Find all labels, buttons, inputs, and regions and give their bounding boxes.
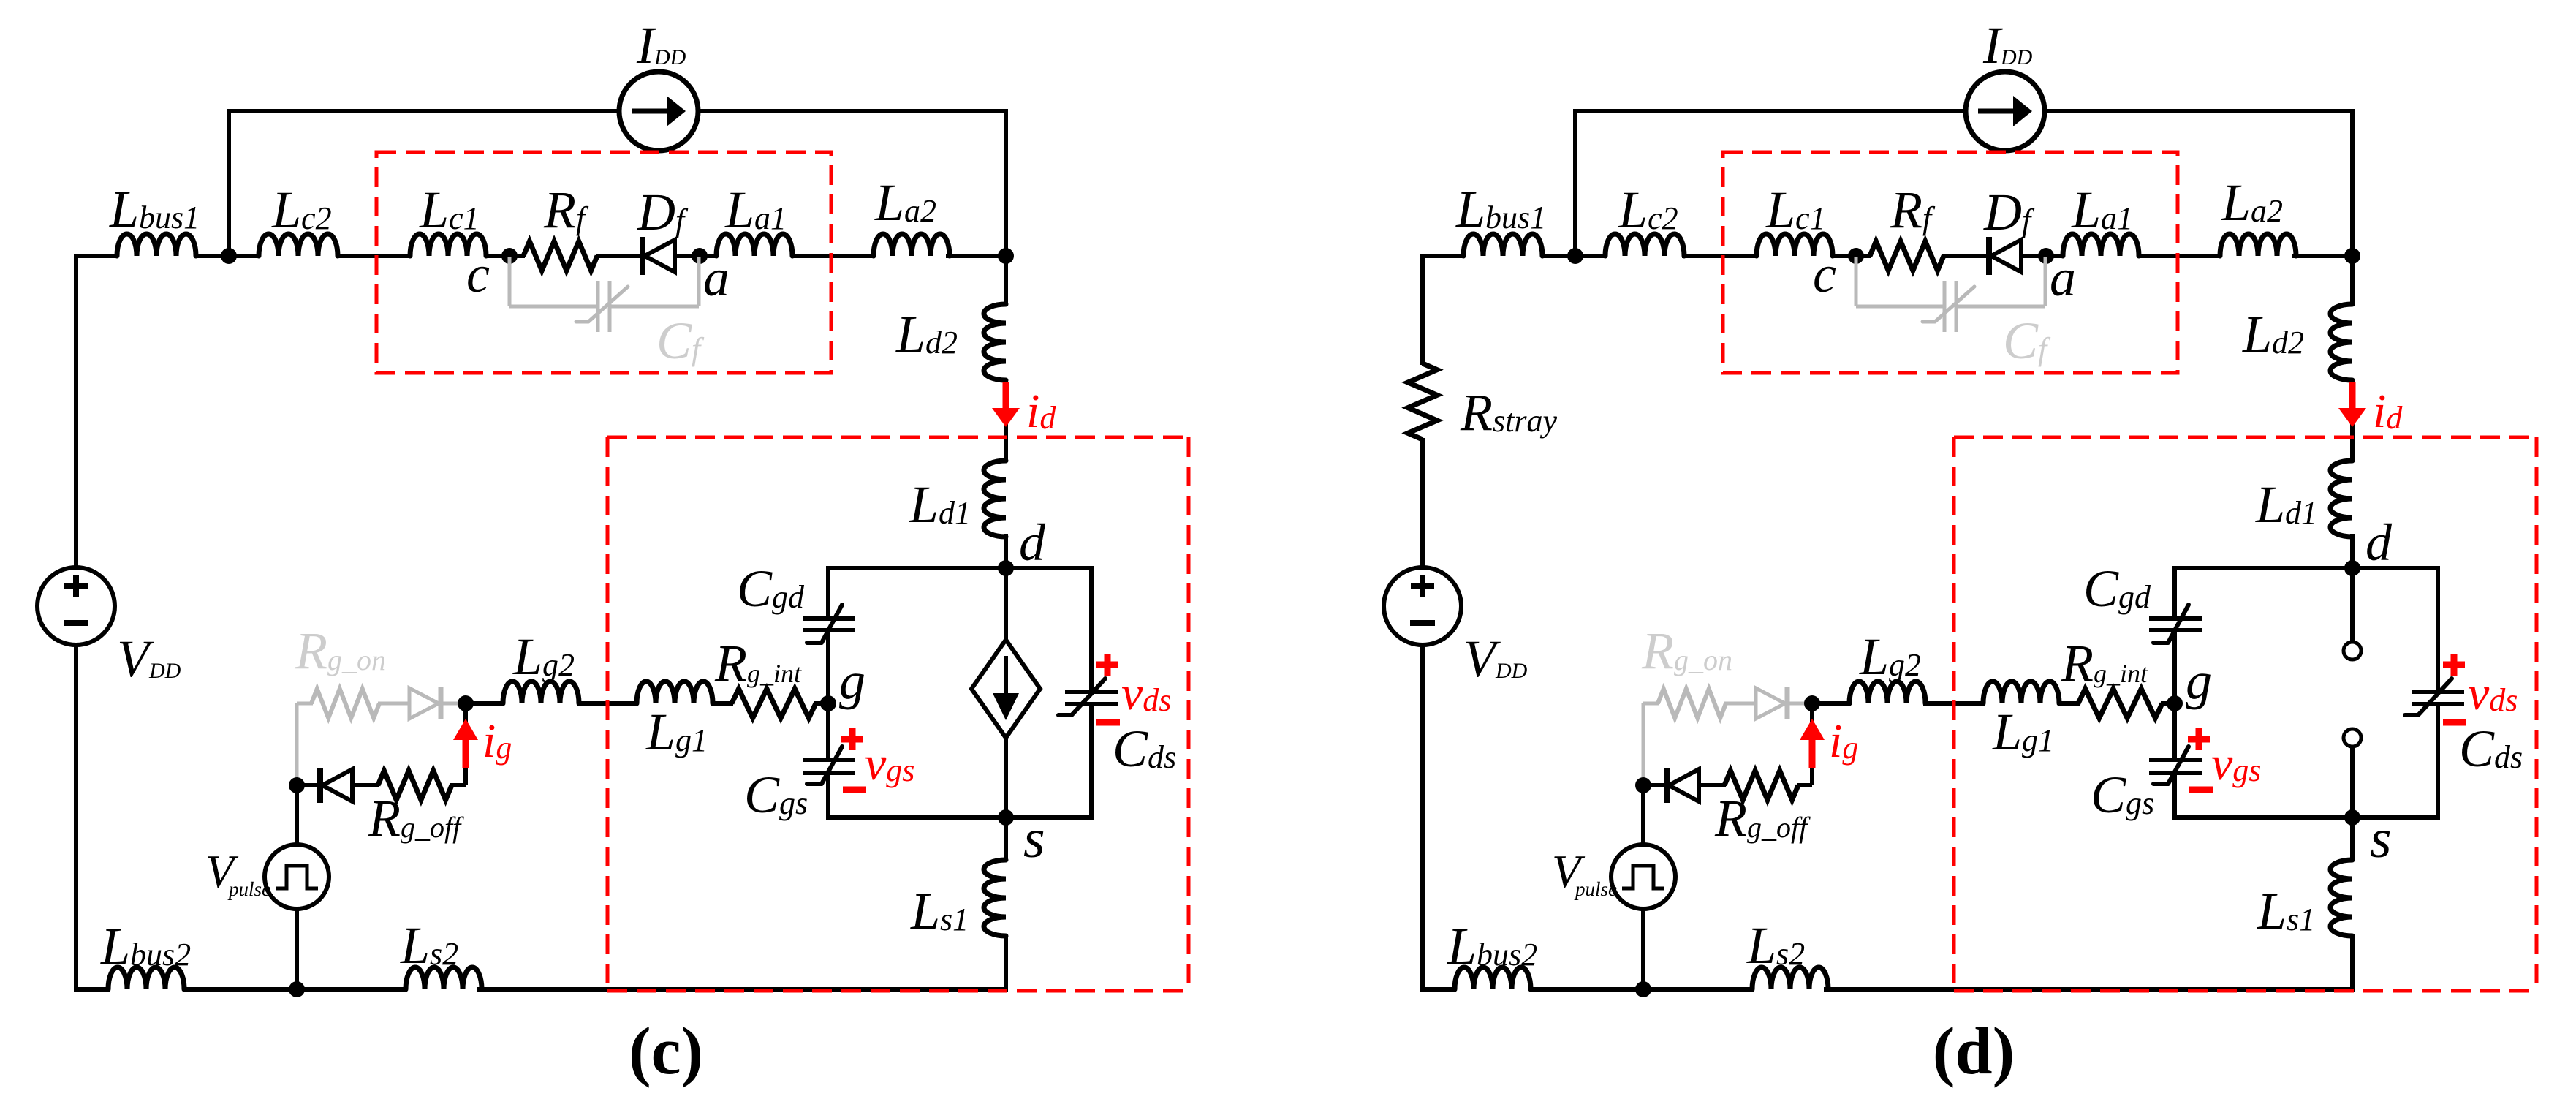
- node c (panel c): [501, 248, 518, 264]
- inductor Lc2 (panel c): [259, 234, 338, 256]
- MOSFET box left edge upper (to Cgd) (panel d): [2172, 568, 2177, 619]
- capacitor Cgd (panel c): [803, 616, 855, 621]
- wire: left vertical to Rstray (panel d): [1420, 254, 1425, 365]
- wire: top rail right segment (panel c): [698, 109, 1008, 113]
- wire (gray): Cf left horizontal (panel c): [509, 305, 598, 309]
- wire: node to Ld2 (panel c): [1004, 256, 1008, 306]
- wire: Vpulse to bottom rail (panel d): [1641, 908, 1645, 989]
- node: top of drain branch (panel c): [998, 248, 1014, 264]
- dashed box: freewheeling diode module (panel c): [376, 152, 831, 373]
- MOSFET box right edge lower (panel d): [2436, 704, 2440, 817]
- inductor Lc2 (panel d): [1605, 234, 1684, 256]
- wire: left vertical upper (panel c): [74, 254, 78, 569]
- svg-text:pulse: pulse: [1574, 878, 1617, 900]
- wire: gate node to Lg2 (panel c): [464, 701, 504, 706]
- current source IDD (panel c): [619, 72, 698, 151]
- MOSFET box left edge lower (panel d): [2172, 773, 2177, 817]
- wire: bottom rail Ls2 to source branch (panel d): [1824, 987, 2355, 992]
- wire: rail Df to La1 (panel c): [675, 254, 718, 258]
- inductor Lc1 (panel c): [410, 234, 486, 256]
- wire: Lg2 to Lg1 (panel c): [577, 701, 638, 706]
- wire: Rstray to VDD (panel d): [1420, 438, 1425, 569]
- wire: Ls1 to bottom rail (panel d): [2350, 934, 2355, 992]
- wire: right vertical from top rail to node (panel d): [2350, 109, 2355, 256]
- wire: rail Lc2 to Lc1 (panel d): [1682, 254, 1758, 258]
- wire: rail Rf to Df (panel c): [596, 254, 643, 258]
- inductor Ld2 (panel d): [2330, 304, 2352, 380]
- capacitor Cds (panel d): [2412, 690, 2464, 694]
- capacitor Cgd (panel d): [2149, 616, 2202, 621]
- node s (panel c): [998, 809, 1014, 826]
- wire: node to Vpulse (panel c): [295, 785, 299, 845]
- wire: right vertical from top rail to node (panel c): [1004, 109, 1008, 256]
- wire (gray): diode to gate node (panel c): [442, 702, 466, 706]
- node: top of drain branch (panel d): [2344, 248, 2360, 264]
- capacitor Cgs (panel d): [2149, 758, 2202, 762]
- diode (off-path) (panel d): [1664, 768, 1670, 803]
- wire: top rail right segment (panel d): [2045, 109, 2355, 113]
- node: junction of riser and rail (panel d): [1567, 248, 1583, 264]
- wire: gate node down (under ig arrow) (panel c): [463, 703, 468, 785]
- wire: s to Ls1 (panel c): [1004, 817, 1008, 861]
- dashed box: device under test (panel d): [1954, 436, 2537, 439]
- switch contact upper circle (panel d): [2344, 642, 2361, 660]
- capacitor Cds (panel c): [1065, 690, 1118, 694]
- node: Vpulse top junction (panel c): [289, 777, 305, 793]
- wire: node to Ld2 (panel d): [2350, 256, 2355, 306]
- wire: gate node to Lg2 (panel d): [1811, 701, 1851, 706]
- resistor Rg_off (panel d): [1724, 771, 1798, 800]
- MOSFET box left edge middle (panel d): [2172, 630, 2177, 760]
- resistor Rf (panel c): [523, 241, 597, 271]
- wire (gray): corner to Rg_on (panel c): [297, 702, 313, 706]
- diode (off-path) (panel c): [317, 768, 323, 803]
- dashed box: device under test (panel c): [607, 436, 1189, 439]
- resistor Rg_on (gray) (panel d): [1658, 689, 1726, 718]
- inductor Lg1 (panel d): [1983, 681, 2059, 703]
- inductor Ld1 (panel c): [984, 461, 1006, 537]
- wire (gray): Rg_on to diode (panel d): [1724, 702, 1756, 706]
- wire: Rg_off resistor to diode (panel c): [353, 783, 379, 787]
- capacitor Cf slash (panel d): [1922, 287, 1974, 322]
- wire (gray): Rg_on left corner vertical (panel d): [1642, 703, 1645, 783]
- node: Vpulse return junction (panel c): [289, 981, 305, 997]
- wire: Lg1 to Rg_int (panel c): [713, 701, 733, 706]
- svg-text:c: c: [1813, 245, 1836, 303]
- MOSFET box top edge (panel d): [2172, 566, 2440, 570]
- inductor La2 (panel c): [874, 234, 950, 256]
- current arrow id (red) (panel c): [1003, 382, 1009, 412]
- wire: rail La1 to La2 (panel d): [2137, 254, 2221, 258]
- MOSFET box right edge lower (panel c): [1089, 704, 1094, 817]
- inductor Lbus1 (panel c): [117, 234, 196, 256]
- wire: Ld2 to Ld1 (panel c): [1004, 379, 1008, 462]
- wire: rail Lc1 to Rf (panel d): [1831, 254, 1871, 258]
- wire: Vpulse to bottom rail (panel c): [295, 908, 299, 989]
- wire: rail Lbus1 to Lc2 (panel d): [1541, 254, 1607, 258]
- controlled current source (diamond) (panel c): [971, 640, 1040, 738]
- MOSFET box bottom edge (panel d): [2172, 815, 2440, 820]
- wire: rail left end (panel c): [74, 254, 118, 258]
- MOSFET box right edge upper (to Cds) (panel d): [2436, 568, 2440, 692]
- node: Vpulse return junction (panel d): [1635, 981, 1651, 997]
- wire (gray): Cf right horizontal (panel c): [610, 305, 699, 309]
- resistor Rg_off (panel c): [378, 771, 452, 800]
- wire (gray): c node down (panel d): [1855, 257, 1858, 306]
- wire: left vertical lower (panel c): [74, 644, 78, 992]
- wire (gray): Rg_on to diode (panel c): [378, 702, 409, 706]
- dashed box: freewheeling diode module (panel d): [1723, 152, 2178, 373]
- wire (gray): up to a node (panel c): [697, 257, 701, 306]
- inductor Ld2 (panel c): [984, 304, 1006, 380]
- node g (panel c): [820, 695, 836, 711]
- inductor Lbus2 (panel d): [1455, 967, 1531, 989]
- capacitor Cf plates (panel c): [596, 281, 600, 332]
- diode (gray, on-path) (panel d): [1785, 687, 1790, 719]
- inductor Lg2 (panel d): [1849, 681, 1925, 703]
- wire: rail left end (panel d): [1420, 254, 1465, 258]
- diode (gray, on-path) (panel c): [439, 687, 444, 719]
- svg-text:g: g: [2186, 651, 2212, 710]
- MOSFET box left edge upper (to Cgd) (panel c): [826, 568, 830, 619]
- current arrow ig (red) (panel d): [1809, 740, 1816, 768]
- wire: Lg1 to Rg_int (panel d): [2059, 701, 2080, 706]
- inductor Lg1 (panel c): [637, 681, 713, 703]
- inductor Ls1 (panel d): [2330, 860, 2352, 936]
- wire (gray): diode to gate node (panel d): [1789, 702, 1812, 706]
- wire: rail La1 to La2 (panel c): [791, 254, 875, 258]
- wire: rail La2 to right node (panel c): [946, 254, 1008, 258]
- wire: Rg_int to g (panel c): [814, 701, 828, 706]
- wire: d to controlled source (panel c): [1004, 568, 1008, 642]
- voltage source Vpulse (panel d): [1611, 845, 1675, 909]
- minus sign vgs (red) (panel c): [843, 787, 866, 793]
- current arrow ig (red) (panel c): [463, 740, 469, 768]
- wire: top rail left segment (panel c): [229, 109, 620, 113]
- wire: top rail left segment (panel d): [1575, 109, 1966, 113]
- wire: diode to Vpulse node (panel c): [295, 783, 322, 787]
- wire (gray): Rg_on left corner vertical (panel c): [295, 703, 299, 783]
- voltage source VDD (panel c): [37, 567, 115, 645]
- wire (gray): Cf right horizontal (panel d): [1956, 305, 2045, 309]
- wire: Ld1 to d node (panel d): [2350, 534, 2355, 568]
- inductor Lc1 (panel d): [1757, 234, 1833, 256]
- svg-text:s: s: [1023, 808, 1045, 869]
- wire (gray): up to a node (panel d): [2044, 257, 2047, 306]
- node: Vpulse top junction (panel d): [1635, 777, 1651, 793]
- inductor Ld1 (panel d): [2330, 461, 2352, 537]
- wire: bottom rail Ls2 to source branch (panel c): [477, 987, 1008, 992]
- inductor Ls2 (panel c): [406, 967, 482, 989]
- wire: gate node down (under ig arrow) (panel d): [1810, 703, 1814, 785]
- wire: Rg_off corner to resistor (panel c): [450, 783, 466, 787]
- wire: rail La2 to right node (panel d): [2292, 254, 2355, 258]
- current arrow id (red) (panel d): [2349, 382, 2356, 412]
- wire: left branch riser at node (panel c): [227, 109, 231, 256]
- inductor La1 (panel c): [716, 234, 792, 256]
- minus sign vds (red) (panel c): [1096, 719, 1120, 726]
- svg-text:s: s: [2370, 808, 2392, 869]
- capacitor Cf slash (panel c): [576, 287, 628, 322]
- inductor Ls1 (panel c): [984, 860, 1006, 936]
- svg-text:pulse: pulse: [227, 878, 270, 900]
- wire: Lg2 to Lg1 (panel d): [1923, 701, 1985, 706]
- plus sign vds (red) (panel c): [1096, 662, 1118, 668]
- switch contact lower circle (panel d): [2344, 729, 2361, 747]
- current source IDD (panel d): [1966, 72, 2045, 151]
- node d (panel c): [998, 560, 1014, 576]
- wire: node to Vpulse (panel d): [1641, 785, 1645, 845]
- resistor Rg_on (gray) (panel c): [311, 689, 379, 718]
- wire (gray): c node down (panel c): [508, 257, 512, 306]
- inductor La2 (panel d): [2220, 234, 2296, 256]
- wire: bottom rail Lbus2 to Ls2 (panel d): [1531, 987, 1754, 992]
- svg-text:d: d: [1019, 513, 1046, 572]
- inductor Ls2 (panel d): [1752, 967, 1828, 989]
- plus sign vgs (red) (panel c): [841, 736, 863, 743]
- wire: rail Rf to Df (panel d): [1942, 254, 1989, 258]
- svg-text:(d): (d): [1933, 1013, 2015, 1088]
- diode Df (panel c): [640, 237, 645, 275]
- node c (panel d): [1848, 248, 1864, 264]
- plus sign vgs (red) (panel d): [2188, 736, 2210, 743]
- wire: switch to s (panel d): [2350, 747, 2355, 817]
- minus sign vgs (red) (panel d): [2189, 787, 2213, 793]
- wire: Ld1 to d node (panel c): [1004, 534, 1008, 568]
- node: gate drive junction (panel c): [458, 695, 474, 711]
- inductor Lbus1 (panel d): [1463, 234, 1542, 256]
- MOSFET box right edge upper (to Cds) (panel c): [1089, 568, 1094, 692]
- MOSFET box bottom edge (panel c): [826, 815, 1094, 820]
- resistor Rf (panel d): [1870, 241, 1944, 271]
- resistor Rstray (panel d): [1408, 363, 1437, 439]
- node: junction of riser and rail (panel c): [221, 248, 237, 264]
- voltage source VDD (panel d): [1384, 567, 1461, 645]
- wire: rail Lc1 to Rf (panel c): [485, 254, 525, 258]
- wire: d to switch (panel d): [2350, 568, 2355, 642]
- resistor Rg_int (panel c): [732, 689, 816, 718]
- wire: Ls1 to bottom rail (panel c): [1004, 934, 1008, 992]
- wire: bottom rail left end (panel d): [1420, 987, 1456, 992]
- wire: bottom rail Lbus2 to Ls2 (panel c): [184, 987, 407, 992]
- wire: left vertical lower (panel d): [1420, 644, 1425, 992]
- inductor Lbus2 (panel c): [108, 967, 184, 989]
- voltage source Vpulse (panel c): [265, 845, 329, 909]
- node s (panel d): [2344, 809, 2360, 826]
- inductor La1 (panel d): [2063, 234, 2139, 256]
- node: gate drive junction (panel d): [1804, 695, 1820, 711]
- wire (gray): corner to Rg_on (panel d): [1643, 702, 1659, 706]
- capacitor Cf plates (panel d): [1943, 281, 1947, 332]
- node g (panel d): [2167, 695, 2183, 711]
- svg-text:c: c: [466, 245, 490, 303]
- node a (panel c): [692, 248, 708, 264]
- wire: Rg_int to g (panel d): [2161, 701, 2175, 706]
- minus sign vds (red) (panel d): [2443, 719, 2466, 726]
- resistor Rg_int (panel d): [2078, 689, 2162, 718]
- MOSFET box left edge middle (panel c): [826, 630, 830, 760]
- plus sign vds (red) (panel d): [2443, 662, 2465, 668]
- wire: left branch riser at node (panel d): [1573, 109, 1577, 256]
- MOSFET box left edge lower (panel c): [826, 773, 830, 817]
- node a (panel d): [2038, 248, 2054, 264]
- wire: rail Df to La1 (panel d): [2021, 254, 2064, 258]
- svg-text:g: g: [839, 651, 865, 710]
- wire (gray): Cf left horizontal (panel d): [1856, 305, 1944, 309]
- wire: rail Lc2 to Lc1 (panel c): [336, 254, 412, 258]
- wire: controlled source to s (panel c): [1004, 738, 1008, 817]
- wire: s to Ls1 (panel d): [2350, 817, 2355, 861]
- diode Df (panel d): [1986, 237, 1992, 275]
- inductor Lg2 (panel c): [503, 681, 579, 703]
- wire: Ld2 to Ld1 (panel d): [2350, 379, 2355, 462]
- wire: Rg_off resistor to diode (panel d): [1700, 783, 1726, 787]
- wire: Rg_off corner to resistor (panel d): [1797, 783, 1812, 787]
- wire: rail Lbus1 to Lc2 (panel c): [194, 254, 260, 258]
- wire: bottom rail left end (panel c): [74, 987, 110, 992]
- svg-text:(c): (c): [629, 1013, 703, 1088]
- capacitor Cgs (panel c): [803, 758, 855, 762]
- wire: diode to Vpulse node (panel d): [1641, 783, 1668, 787]
- svg-text:d: d: [2365, 513, 2393, 572]
- node d (panel d): [2344, 560, 2360, 576]
- MOSFET box top edge (panel c): [826, 566, 1094, 570]
